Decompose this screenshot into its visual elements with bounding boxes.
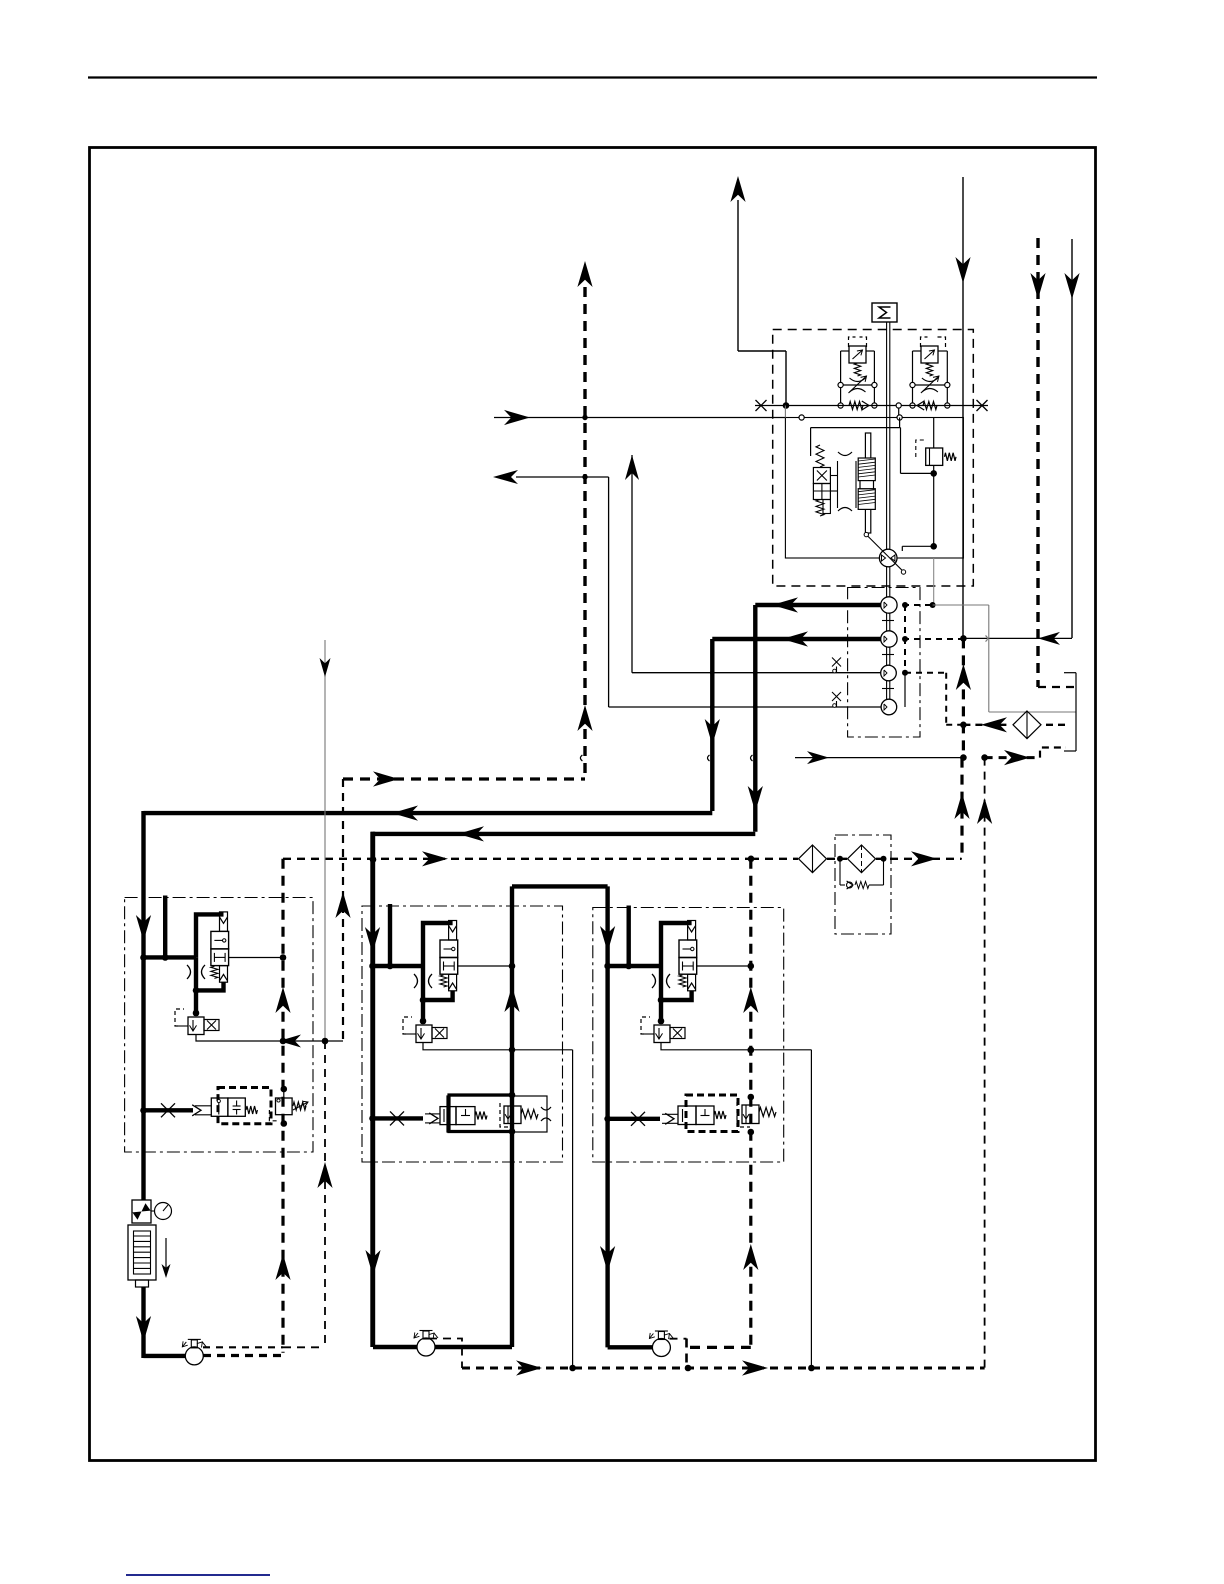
feedback link arcs xyxy=(830,452,856,511)
right group boundary box (chain) xyxy=(593,908,784,1163)
wire: right feed stub xyxy=(625,906,632,970)
wire: SV1 drain (y1041) xyxy=(196,1035,343,1048)
filter assembly box (chain) xyxy=(835,835,891,934)
wire: feed line into regulator (y417) xyxy=(494,410,902,425)
travel pilot valve TV3 (right) xyxy=(678,1095,738,1132)
wire: return collector column (dashed x963) xyxy=(954,638,971,858)
gray wire: gauge line (x325) xyxy=(320,640,331,1041)
left group boundary box (chain) xyxy=(125,898,313,1153)
main pump P1 (variable) xyxy=(864,532,906,574)
pump drive shaft (double line) xyxy=(882,322,894,700)
gear pump P2 xyxy=(881,597,897,613)
return filter F2 (diamond) xyxy=(1013,711,1041,739)
reducing valve RV3 (right) xyxy=(652,921,697,1004)
gear pump P3 xyxy=(881,631,897,647)
wire: P5 to P4 junction link xyxy=(902,670,908,707)
hand pump HP2 xyxy=(414,1331,438,1357)
compensator valve left (pump1 regulator pilot) xyxy=(838,337,877,408)
mid group boundary box (chain) xyxy=(362,906,563,1162)
gear pump P5 xyxy=(881,699,897,715)
drawing border frame xyxy=(90,148,1096,1461)
gray drain: regulator left edge xyxy=(784,406,786,418)
main return filter F1 (diamond) xyxy=(848,845,876,873)
wire: P5 line to port (thin) xyxy=(493,470,881,709)
wire: P3 delivery (thick, to mid valve group feed) xyxy=(136,631,881,1200)
wire: right feed to reducing valve xyxy=(608,964,661,968)
solenoid valve SV2 (mid) xyxy=(403,1017,447,1043)
wire: RV1 to solenoid SV1 xyxy=(193,990,200,1016)
wire: mid feed column xyxy=(370,832,374,1347)
wire: HP3 drain stub xyxy=(670,1339,687,1369)
wire: right relief drain column (dashed x750) xyxy=(690,859,758,1348)
wire: torque valve branch xyxy=(900,418,934,449)
wire: HP1 pilot supply (dashed) xyxy=(203,1347,283,1355)
wire: solid return riser link (y638) xyxy=(960,632,1072,645)
wire: left travel pilot (y1110) xyxy=(144,1103,212,1117)
check-spring symbol left rail xyxy=(849,401,869,410)
torque control valve (cutoff) xyxy=(902,440,956,551)
pressure gauge G1 xyxy=(151,1203,172,1220)
wire: meter outlet to hand pump HP1 xyxy=(136,1287,186,1358)
wire: tank gallery (dashed y1368) xyxy=(462,758,992,1376)
solenoid valve SV3 (right) xyxy=(641,1017,685,1043)
footer link underline xyxy=(126,1574,270,1576)
check-spring symbol right rail xyxy=(917,401,937,410)
wire: P2 delivery (thick, to left valve group feed) xyxy=(365,597,880,1347)
summation box (sigma) xyxy=(872,303,897,322)
solenoid valve SV1 (left) xyxy=(175,1009,219,1035)
wire: port arrow up to boom line (x738) xyxy=(730,176,786,406)
wire: P3 sense line (dashed) xyxy=(902,605,961,670)
gray wire: P2 sense to tank port xyxy=(933,605,1076,712)
wire: RV2 to solenoid SV2 xyxy=(420,1000,427,1024)
travel pilot valve TV1 (left) xyxy=(211,1088,271,1124)
filter bypass check valve xyxy=(840,859,884,889)
relief valve RL1 (left) xyxy=(269,1086,308,1127)
reducing valve RV1 (left) xyxy=(187,912,229,994)
wire: left feed to reducing valve xyxy=(144,955,197,959)
reducing valve RV2 (mid) xyxy=(414,921,458,1004)
tank port bracket xyxy=(1064,673,1076,751)
wire: RV1 outlet (y957) xyxy=(229,954,287,961)
wire: return line port down (x963) xyxy=(955,177,970,638)
wire: P2 sense line (dashed) xyxy=(902,602,936,608)
wire: drain gallery line (y757) xyxy=(795,748,1066,766)
wire: SV3 drain (y1050) xyxy=(661,1043,811,1369)
flow meter FM1 xyxy=(128,1225,156,1287)
shutoff valve (flowmeter inlet) xyxy=(132,1200,151,1223)
wire: RV3 to solenoid SV3 xyxy=(658,1000,665,1024)
compensator valve right (pump2 regulator pilot) xyxy=(910,337,950,408)
wire: SV2 drain (y1050) xyxy=(423,1043,573,1369)
plug symbol on P4 line xyxy=(832,658,841,673)
pilot spool valve (regulator) xyxy=(813,445,830,516)
wire: drain port down (x1072) xyxy=(1064,239,1079,638)
wire: HP2 drain to tank line xyxy=(429,1339,462,1369)
wire: compensator rail (y405) xyxy=(755,400,988,411)
wire: mid feed stub xyxy=(387,904,394,969)
node circle rail-a xyxy=(896,403,901,418)
hand pump HP3 xyxy=(649,1331,673,1357)
wire: left feed stub xyxy=(162,896,169,961)
gray link regulator to pump2 line xyxy=(933,558,935,605)
flow direction arrow (meter) xyxy=(162,1238,171,1278)
wire: pilot line port up (x585, dashed) xyxy=(577,261,592,779)
wire: P4 drain dashed to return xyxy=(905,673,961,725)
wire: filter return branch (y725) xyxy=(963,717,1066,732)
relief valve RL3 (right) xyxy=(737,1094,776,1136)
wire: main return line (dashed y859) xyxy=(283,851,962,866)
regulator housing box xyxy=(785,418,963,559)
wire: RV2 outlet (y966) xyxy=(458,965,512,967)
travel pilot valve TV2 (mid) xyxy=(440,1095,547,1132)
gear pump P4 xyxy=(881,665,897,681)
page header rule xyxy=(88,76,1097,78)
wire: RV3 outlet (y966) xyxy=(697,963,754,970)
pump group inner box (chain) xyxy=(848,588,920,738)
servo piston xyxy=(858,433,875,533)
wire: mid travel pilot (y1118) xyxy=(369,1111,440,1125)
oil cooler (diamond) xyxy=(799,845,827,873)
pump group boundary box (dashed) xyxy=(773,330,974,587)
hand pump HP1 xyxy=(182,1339,206,1365)
wire: right travel pilot (y1119) xyxy=(608,1112,678,1126)
wire: mid group to right group crossover (thick) xyxy=(435,886,652,1347)
wire: pilot port down (x1038, dashed) xyxy=(1030,238,1074,687)
relief valve RL2 (mid) xyxy=(500,1092,551,1135)
wire: gauge pilot lower (dashed x325) xyxy=(283,1041,333,1347)
wire: pilot feed B (dashed x283) xyxy=(275,859,290,1353)
plug symbol on P5 line xyxy=(832,692,841,707)
wire: mid feed to reducing valve xyxy=(365,927,423,969)
wire: P4 line to gauge port (thin) xyxy=(625,455,881,675)
wire: regulator internal top line xyxy=(811,428,934,474)
wire: pilot branch A (dashed, x343) xyxy=(335,771,585,1041)
